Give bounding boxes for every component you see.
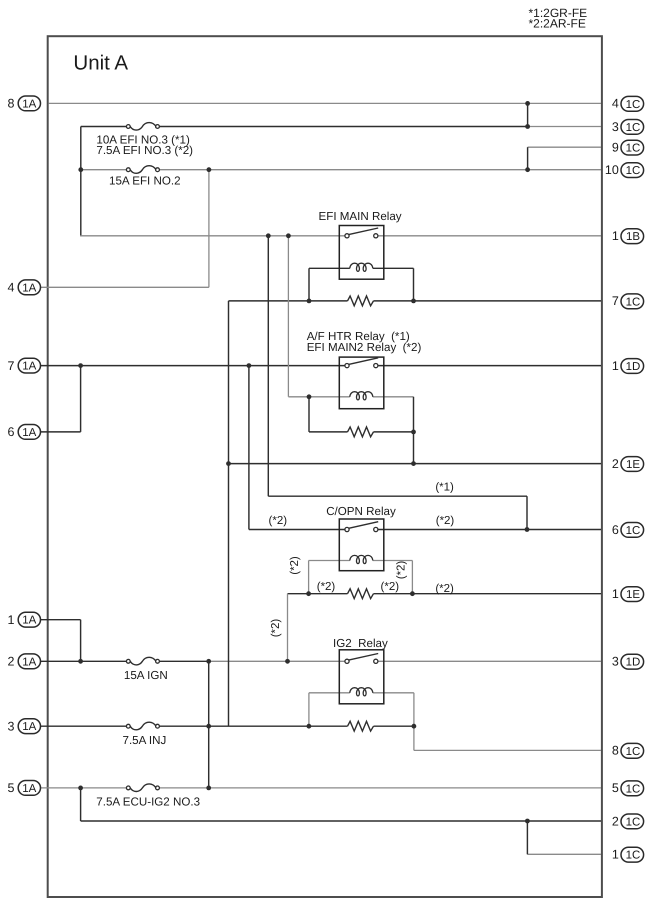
connector pin 7 1C	[612, 294, 644, 309]
connector pin 3 1A	[8, 719, 41, 734]
svg-text:1: 1	[612, 587, 619, 601]
connector pin 6 1C	[612, 523, 644, 538]
svg-text:8: 8	[612, 744, 619, 758]
wire A/F HTR coil leads	[288, 396, 349, 398]
svg-text:(*2): (*2)	[270, 619, 282, 638]
svg-text:5: 5	[8, 781, 15, 795]
svg-text:1A: 1A	[22, 98, 36, 110]
connector pin 2 1A	[8, 654, 41, 669]
connector pin 10 1C	[605, 163, 644, 178]
wire A/F HTR resistor row	[309, 431, 348, 433]
wire 8(1C) row	[414, 749, 601, 751]
svg-text:5: 5	[612, 781, 619, 795]
wire EFI MAIN coil leads	[309, 267, 350, 269]
wire 1(1A) branch	[41, 619, 81, 621]
svg-text:*2:2AR-FE: *2:2AR-FE	[529, 16, 586, 30]
svg-text:1A: 1A	[22, 361, 36, 373]
svg-text:3: 3	[612, 120, 619, 134]
svg-text:1A: 1A	[22, 721, 36, 733]
svg-text:IG2 Relay: IG2 Relay	[333, 637, 388, 650]
svg-text:(*2): (*2)	[381, 581, 400, 593]
wire fuse EFI NO.2 row to 10(1C)	[81, 169, 127, 171]
connector pin 8 1C	[612, 743, 644, 758]
svg-text:2: 2	[612, 457, 619, 471]
wire 5(1A) to 5(1C) fuse ECU-IG2 row	[41, 787, 127, 789]
resistor EFI MAIN relay	[348, 296, 374, 306]
connector pin 1 1A	[8, 612, 41, 627]
note engine codes	[529, 6, 588, 31]
svg-text:1C: 1C	[626, 99, 641, 111]
wire 3(1A) fuse INJ row / IG2 resistor row	[41, 725, 127, 727]
wire junction drop 4(1C) to 3(1C)	[527, 103, 529, 126]
wire C/OPN coil leads	[309, 560, 350, 562]
svg-text:1: 1	[612, 848, 619, 862]
wire vertical battery drop to 2(1C)	[80, 788, 82, 821]
wire C/OPN relay switch row to 6(1C)	[249, 529, 345, 531]
wire 6(1A) branch	[41, 431, 81, 433]
wire vertical INJ to ECU-IG2	[208, 661, 210, 788]
connector pin 5 1C	[612, 781, 644, 796]
svg-text:1E: 1E	[626, 459, 640, 471]
junction dots	[525, 101, 530, 106]
connector pin 4 1A	[8, 280, 41, 295]
relay EFI MAIN	[339, 226, 384, 280]
svg-text:1C: 1C	[626, 746, 641, 758]
svg-text:3: 3	[8, 720, 15, 734]
wire EFI MAIN resistor row to 7(1C)	[229, 300, 348, 302]
wire vertical EFI MAIN sw to A/F coil	[287, 236, 289, 397]
connector pin 7 1A	[8, 358, 41, 373]
svg-text:Unit A: Unit A	[73, 52, 128, 75]
svg-text:2: 2	[612, 814, 619, 828]
wire 2(1A) fuse IGN row	[41, 660, 127, 662]
svg-text:EFI MAIN Relay: EFI MAIN Relay	[319, 210, 402, 223]
connector pin 4 1C	[612, 96, 644, 111]
svg-text:7.5A ECU-IG2 NO.3: 7.5A ECU-IG2 NO.3	[96, 796, 200, 809]
svg-text:1C: 1C	[626, 165, 641, 177]
wire 4(1A) feed	[41, 286, 209, 288]
svg-text:15A IGN: 15A IGN	[124, 669, 168, 682]
svg-text:10: 10	[605, 163, 619, 177]
svg-text:1A: 1A	[22, 427, 36, 439]
wire 8(1A) to 4(1C)	[49, 102, 601, 104]
svg-text:(*1): (*1)	[435, 481, 454, 493]
wire 7(1A) to 1(1D) A/F HTR switch row	[41, 365, 345, 367]
resistor IG2 relay	[348, 721, 374, 731]
relay IG2	[339, 650, 384, 704]
svg-text:7.5A EFI NO.3 (*2): 7.5A EFI NO.3 (*2)	[96, 144, 193, 157]
svg-text:1C: 1C	[626, 783, 641, 795]
wire 1(1C) stub	[527, 853, 601, 855]
svg-text:1D: 1D	[626, 657, 641, 669]
svg-text:7: 7	[612, 294, 619, 308]
svg-text:1C: 1C	[626, 850, 641, 862]
svg-text:1: 1	[8, 613, 15, 627]
svg-text:1: 1	[612, 359, 619, 373]
connector pin 2 1E	[612, 457, 644, 472]
svg-text:(*2): (*2)	[436, 515, 455, 527]
svg-text:3: 3	[612, 655, 619, 669]
connector pin 3 1C	[612, 120, 644, 135]
connector pin 9 1C	[612, 140, 644, 155]
connector pin 1 1C	[612, 847, 644, 862]
connector pin 1 1B	[612, 229, 644, 244]
connector pin 5 1A	[8, 781, 41, 796]
connector pin 1 1E	[612, 587, 644, 602]
wire fuse EFI NO.3 row	[81, 126, 127, 128]
svg-text:1: 1	[612, 229, 619, 243]
svg-text:1A: 1A	[22, 615, 36, 627]
svg-text:1C: 1C	[626, 143, 641, 155]
fuse 15A EFI NO.2	[126, 166, 159, 174]
fuse 10A/7.5A EFI NO.3	[126, 123, 159, 131]
svg-text:C/OPN Relay: C/OPN Relay	[326, 505, 396, 518]
connector pin 6 1A	[8, 425, 41, 440]
wire vertical 7(1A) to C/OPN	[248, 366, 250, 530]
svg-text:(*2): (*2)	[435, 583, 454, 595]
svg-text:1A: 1A	[22, 282, 36, 294]
svg-text:1C: 1C	[626, 296, 641, 308]
wire IG2 switch row to 3(1D)	[209, 660, 345, 662]
svg-text:4: 4	[8, 281, 15, 295]
svg-text:(*2): (*2)	[269, 515, 288, 527]
wire vertical long mid bus	[228, 301, 230, 726]
connector pin 8 1A	[8, 96, 41, 111]
fuse 7.5A INJ	[126, 722, 159, 730]
connector pin 1 1D	[612, 359, 644, 374]
wire vertical fuse feed	[80, 127, 82, 236]
wire (*1) jumper	[268, 495, 527, 497]
svg-text:8: 8	[8, 97, 15, 111]
svg-text:1C: 1C	[626, 816, 641, 828]
wire 2(1E) row	[229, 463, 602, 465]
wire C/OPN resistor row to 1(1E)	[288, 593, 348, 595]
fuse 15A IGN	[126, 657, 159, 665]
svg-text:4: 4	[612, 97, 619, 111]
svg-text:1B: 1B	[626, 231, 640, 243]
wire 3(1C) stub	[528, 126, 601, 128]
wire 2(1C) row	[81, 820, 601, 822]
svg-text:15A EFI NO.2: 15A EFI NO.2	[109, 175, 181, 188]
svg-text:1E: 1E	[626, 589, 640, 601]
fuse 7.5A ECU-IG2 NO.3	[126, 784, 159, 792]
svg-text:1C: 1C	[626, 122, 641, 134]
svg-text:7.5A INJ: 7.5A INJ	[123, 734, 167, 747]
wire vertical C/OPN resistor to IG2 sw	[287, 594, 289, 662]
svg-text:(*2): (*2)	[317, 581, 336, 593]
relay A/F HTR / EFI MAIN2	[339, 357, 384, 409]
wire 9(1C) branch	[528, 146, 601, 148]
svg-text:2: 2	[8, 655, 15, 669]
svg-text:1A: 1A	[22, 783, 36, 795]
connector pin 3 1D	[612, 654, 644, 669]
svg-text:6: 6	[612, 523, 619, 537]
svg-text:6: 6	[8, 425, 15, 439]
svg-text:1A: 1A	[22, 656, 36, 668]
wire vertical EFI MAIN sw to (*1)	[267, 236, 269, 496]
svg-text:EFI MAIN2 Relay (*2): EFI MAIN2 Relay (*2)	[307, 341, 422, 354]
svg-text:(*2): (*2)	[289, 556, 301, 575]
connector pin 2 1C	[612, 814, 644, 829]
svg-text:9: 9	[612, 141, 619, 155]
svg-text:1D: 1D	[626, 361, 641, 373]
svg-text:1C: 1C	[626, 525, 641, 537]
relay C/OPN	[339, 519, 384, 571]
resistor A/F HTR relay	[348, 427, 374, 437]
svg-text:7: 7	[8, 359, 15, 373]
wire EFI MAIN relay switch row to 1(1B)	[80, 235, 345, 237]
svg-text:(*2): (*2)	[396, 561, 408, 580]
resistor C/OPN relay	[348, 589, 374, 599]
wire IG2 coil leads	[309, 692, 350, 694]
